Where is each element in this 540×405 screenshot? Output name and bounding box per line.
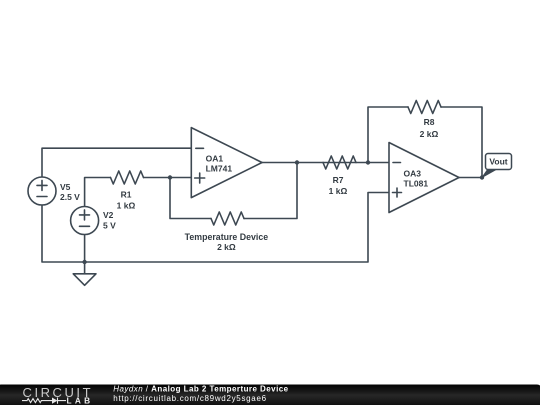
svg-text:Vout: Vout — [489, 157, 507, 167]
svg-text:2 kΩ: 2 kΩ — [217, 242, 236, 252]
svg-text:2.5 V: 2.5 V — [60, 192, 80, 202]
svg-text:R8: R8 — [424, 117, 435, 127]
svg-text:5 V: 5 V — [103, 221, 116, 231]
svg-text:V5: V5 — [60, 182, 71, 192]
svg-text:LM741: LM741 — [206, 164, 233, 174]
svg-text:Temperature Device: Temperature Device — [185, 232, 269, 242]
svg-text:1 kΩ: 1 kΩ — [329, 186, 348, 196]
svg-text:LAB: LAB — [67, 395, 94, 405]
svg-text:V2: V2 — [103, 210, 114, 220]
svg-text:OA3: OA3 — [404, 168, 422, 178]
svg-text:R1: R1 — [121, 190, 132, 200]
svg-text:TL081: TL081 — [404, 179, 429, 189]
svg-text:2 kΩ: 2 kΩ — [420, 129, 439, 139]
svg-text:1 kΩ: 1 kΩ — [117, 201, 136, 211]
svg-text:http://circuitlab.com/c89wd2y5: http://circuitlab.com/c89wd2y5sgae6 — [113, 394, 266, 403]
svg-text:Haydxn / Analog Lab 2 Tempertu: Haydxn / Analog Lab 2 Temperture Device — [113, 385, 288, 394]
svg-text:OA1: OA1 — [206, 153, 224, 163]
svg-text:R7: R7 — [333, 175, 344, 185]
